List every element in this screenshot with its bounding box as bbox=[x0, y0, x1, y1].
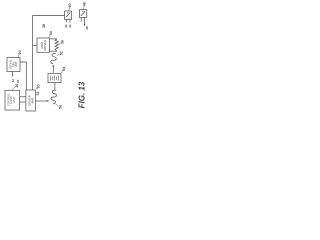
wire coupling arrow right bbox=[36, 100, 48, 102]
leader label 26 bbox=[12, 87, 16, 90]
leader label 36 bbox=[59, 43, 61, 45]
svg-text:48: 48 bbox=[85, 26, 89, 30]
control box 20 bbox=[7, 58, 20, 72]
leader label 52 bbox=[57, 54, 60, 56]
wire bus b bbox=[20, 101, 26, 103]
pin label 24 bbox=[16, 79, 20, 83]
wire arrow below box 46 bbox=[84, 18, 86, 25]
text inside control box bbox=[9, 59, 19, 69]
driver tall box 30 bbox=[26, 90, 36, 111]
leader label 30 bbox=[36, 87, 38, 89]
svg-text:46: 46 bbox=[83, 2, 87, 6]
pivot dot box 46 bbox=[82, 11, 83, 12]
processor box 26 bbox=[5, 90, 20, 110]
arrowhead down box 46 bbox=[84, 24, 86, 26]
wire resistor top rail bbox=[50, 38, 57, 40]
svg-text:54: 54 bbox=[62, 67, 66, 71]
svg-text:22: 22 bbox=[11, 79, 15, 83]
wire bus a bbox=[20, 96, 26, 98]
terminal box 46 bbox=[80, 10, 87, 18]
pin label 22 bbox=[11, 79, 15, 83]
pin label 48 bbox=[85, 26, 89, 30]
switch stroke inside box 46 bbox=[81, 11, 85, 16]
wire arrow below control box bbox=[12, 72, 14, 75]
leader label 34 bbox=[49, 34, 51, 37]
svg-text:40: 40 bbox=[68, 4, 72, 8]
wire left box to rail bbox=[20, 62, 26, 90]
leader label 20 bbox=[18, 54, 19, 58]
battery plates inside bbox=[50, 75, 58, 80]
svg-text:DRIVER: DRIVER bbox=[43, 40, 47, 51]
svg-text:56: 56 bbox=[58, 105, 62, 109]
wire battery to coil bbox=[54, 83, 56, 91]
coil antenna L1 bbox=[51, 54, 56, 64]
pivot dot box 40 bbox=[67, 12, 68, 13]
arrowhead up bbox=[52, 64, 54, 66]
battery box 54 bbox=[48, 74, 61, 83]
svg-text:52: 52 bbox=[60, 51, 64, 55]
wire top horizontal net bbox=[33, 15, 65, 17]
text inside tall box bbox=[28, 95, 35, 106]
svg-text:34: 34 bbox=[49, 31, 53, 35]
wire stub rail to modulator bbox=[33, 44, 37, 46]
svg-text:26: 26 bbox=[15, 84, 19, 88]
text inside processor box bbox=[6, 93, 16, 106]
svg-text:31: 31 bbox=[36, 92, 40, 96]
svg-text:30: 30 bbox=[37, 84, 41, 88]
svg-text:36: 36 bbox=[61, 40, 65, 44]
terminal box 40 bbox=[65, 11, 72, 20]
svg-text:38: 38 bbox=[42, 24, 46, 28]
arrowhead right bbox=[47, 100, 49, 102]
leader label 31 bbox=[36, 88, 39, 90]
leader label 54 bbox=[61, 70, 63, 73]
leader label 46 bbox=[83, 6, 85, 9]
svg-text:AMP: AMP bbox=[30, 97, 34, 103]
svg-text:44: 44 bbox=[68, 24, 72, 28]
switch stroke inside box 40 bbox=[66, 13, 70, 18]
arrowhead down control box bbox=[12, 75, 14, 77]
text inside modulator bbox=[40, 40, 47, 51]
svg-text:20: 20 bbox=[18, 50, 22, 54]
svg-text:UNIT: UNIT bbox=[12, 96, 16, 102]
wire resistor bottom rail bbox=[50, 50, 57, 52]
pin label 44 bbox=[68, 24, 72, 28]
leader label 40 bbox=[68, 8, 71, 11]
svg-text:24: 24 bbox=[16, 79, 20, 83]
pin label 42 bbox=[64, 24, 68, 28]
pin stub box 40 right bbox=[69, 20, 71, 23]
modulator box 34 bbox=[37, 38, 50, 52]
svg-text:FIG. 13: FIG. 13 bbox=[77, 81, 86, 108]
leader label 56 bbox=[56, 104, 59, 106]
node label 38 on top wire bbox=[42, 24, 46, 28]
coupling arrow up bbox=[52, 67, 54, 73]
wire left vertical rail bbox=[32, 15, 34, 90]
pin stub box 46 left bbox=[80, 18, 82, 22]
svg-text:UNIT: UNIT bbox=[14, 61, 18, 67]
pin stub box 40 left bbox=[65, 20, 67, 23]
resistor R1 bbox=[55, 39, 58, 51]
coil antenna L2 bbox=[51, 90, 56, 104]
